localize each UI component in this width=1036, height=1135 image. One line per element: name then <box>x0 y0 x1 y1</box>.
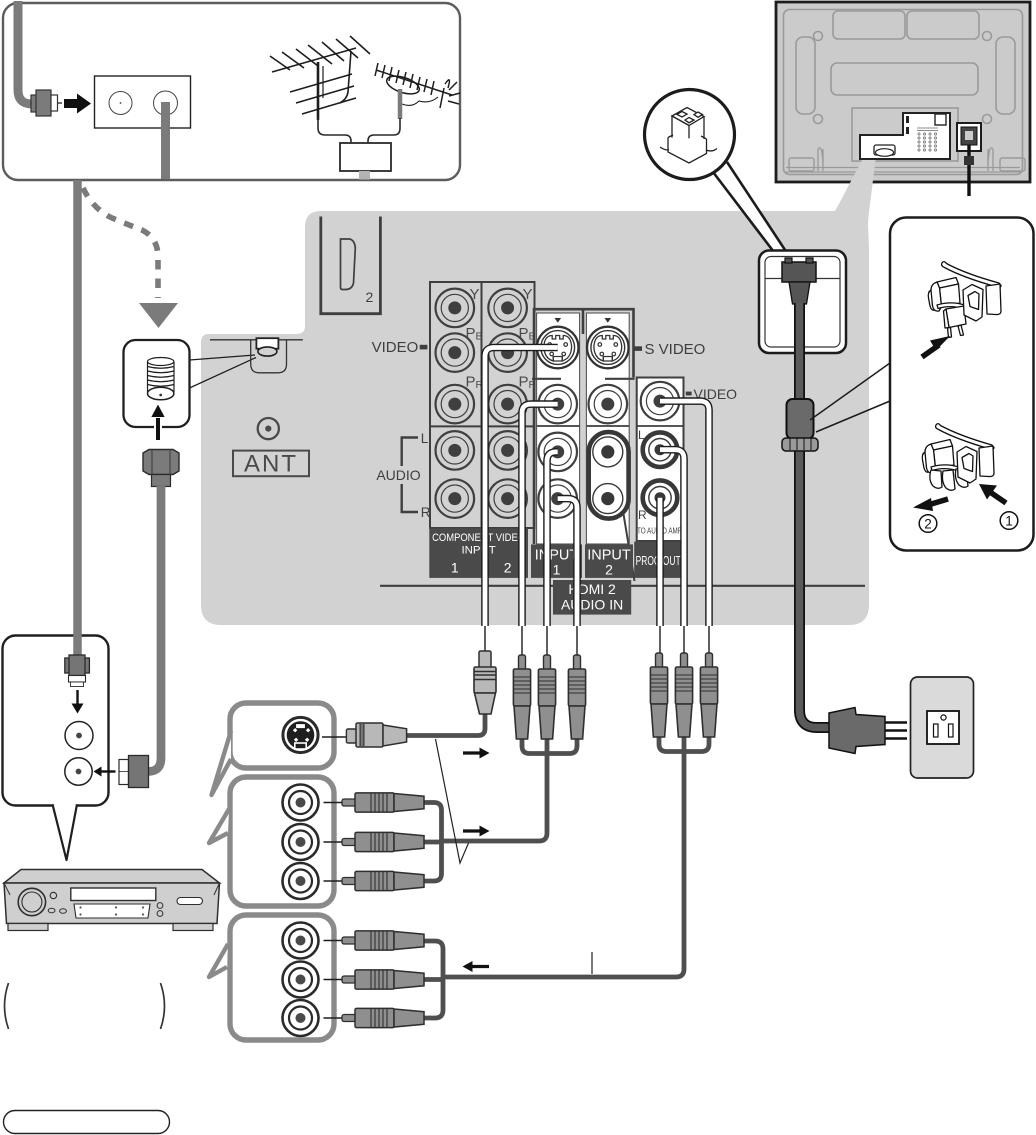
wire long cable left (wall to splitter) <box>73 180 82 653</box>
svg-text:R: R <box>638 508 647 522</box>
wire TV antenna cable down to recorder <box>146 486 161 772</box>
divider audio input cols <box>537 425 630 427</box>
connector elbow F-connector into splitter <box>119 756 149 788</box>
connector F-plug on cable end <box>31 90 62 116</box>
pointer tick on prog cable <box>591 952 593 974</box>
wire cables bubble2 <box>424 803 442 842</box>
jack PR2 <box>488 385 527 424</box>
svg-text:1: 1 <box>451 560 459 576</box>
jack PR1 <box>436 385 475 424</box>
HDMI port box <box>321 217 381 314</box>
svg-text:1: 1 <box>1005 514 1013 529</box>
wire AC plug prongs <box>885 723 907 739</box>
label box COMPONENT VIDEO INPUT <box>429 528 528 578</box>
connector svideo hanging plug <box>474 651 496 714</box>
parentheses (removed caption) <box>5 983 9 1029</box>
jack svideo input2 <box>587 327 629 369</box>
label ANT mark <box>258 418 279 439</box>
divider audio/video components <box>430 425 535 427</box>
jack L in2 <box>593 437 623 467</box>
clamp drawing 2 <box>922 424 994 491</box>
input1 white column <box>537 313 580 544</box>
antenna UHF <box>375 63 460 119</box>
jack video in1 <box>538 385 577 424</box>
TOPLEFTBOX <box>3 3 460 180</box>
jack RCA female L <box>283 962 319 998</box>
connector power plug inserted <box>782 262 816 282</box>
arrow (cable to wall plate) <box>64 94 91 114</box>
connector RCA plug video1 <box>513 655 530 739</box>
jack RCA female V <box>283 785 319 821</box>
wire cables middle plug group <box>522 736 547 754</box>
beam from TV recess to panel <box>835 160 876 224</box>
jack Y2 <box>488 289 527 328</box>
label S VIDEO <box>634 346 642 351</box>
node magnifier circle (power plug detail) <box>645 90 792 261</box>
label circled 1 <box>1000 512 1018 530</box>
svg-text:2: 2 <box>924 517 932 532</box>
node ANT callout bubble <box>124 340 257 427</box>
wire cables right plug group <box>659 734 684 752</box>
wire progVideo cable (white) <box>660 401 709 626</box>
wire stub below combiner <box>359 171 370 180</box>
wire progR cable (white) <box>656 498 664 626</box>
marker triangle input1 <box>555 318 562 323</box>
jack RCA female R <box>283 863 319 899</box>
arrow right (video direction) <box>463 829 480 832</box>
jack svideo input1 <box>537 327 579 369</box>
jack Y1 <box>436 289 475 328</box>
component column 1 box <box>430 282 482 528</box>
clamp attached on cord <box>782 438 818 451</box>
stadium around in2 audio jacks <box>589 432 629 519</box>
node bubble3 (prog out destination) <box>209 915 424 1040</box>
jack R in2 <box>593 484 623 514</box>
label box INPUT 1 <box>531 544 582 578</box>
divider under svideo2 <box>605 378 635 380</box>
ANT terminal on panel <box>210 338 303 373</box>
node bubble2 (video+audio source) <box>209 777 424 906</box>
panel base line <box>380 585 865 587</box>
connector F-plug into splitter <box>65 655 90 687</box>
label VIDEO right <box>686 392 692 396</box>
arrow step 1 (up-left) <box>990 492 1006 503</box>
node power inlet detail square <box>759 251 846 354</box>
svg-text:L: L <box>638 428 645 442</box>
jack R in1 <box>538 479 577 518</box>
node clamp detail box <box>810 218 1034 551</box>
connector RCA plugs horizontal <box>342 793 424 812</box>
svg-text:2: 2 <box>366 289 374 305</box>
label circled 2 <box>919 515 937 533</box>
svg-text:INPUT: INPUT <box>462 545 496 557</box>
jack RCA female R <box>283 1000 319 1036</box>
wire cable from wall plate down <box>161 102 170 179</box>
node splitter jack 2 <box>65 758 92 785</box>
arrow to clamp 1 <box>922 345 939 357</box>
jack video in2 <box>589 385 628 424</box>
jack L prog heavy <box>643 432 678 467</box>
connector 3-pin plug icon <box>660 108 717 164</box>
divider under svideo1 <box>532 378 561 380</box>
label AUDIO bracket <box>402 438 418 513</box>
node splitter tail <box>53 804 78 860</box>
svg-text:Y: Y <box>470 286 480 303</box>
jack PB1 <box>436 333 475 372</box>
jack PB2 <box>488 333 527 372</box>
TV rear view <box>776 2 1030 196</box>
wire video1 cable (white) <box>522 404 558 626</box>
pointer thin V line <box>436 739 469 863</box>
svg-text:R: R <box>421 505 431 520</box>
svg-text:Y: Y <box>523 286 533 303</box>
jack svideo female icon <box>283 717 318 752</box>
label box INPUT 2 <box>585 544 633 578</box>
connector RCA plug L1 <box>538 655 555 739</box>
wire TV power cord <box>967 145 970 196</box>
jack RCA female V <box>283 923 319 959</box>
svg-text:ANT: ANT <box>244 451 298 478</box>
svg-text:S VIDEO: S VIDEO <box>645 341 706 358</box>
arrow step 2 (left) <box>928 499 948 505</box>
svg-text:AUDIO: AUDIO <box>376 467 420 483</box>
connector RCA plug R1 <box>568 655 585 739</box>
connector AC plug <box>829 708 885 754</box>
marker triangle input2 <box>605 318 612 323</box>
arrowhead gray down <box>139 303 178 328</box>
node splitter callout box <box>3 636 109 806</box>
recorder (VCR/DVD) <box>4 870 220 931</box>
ferrite bead on power cord <box>787 399 814 439</box>
jack video prog <box>641 382 680 421</box>
svg-text:COMPONENT VIDEO: COMPONENT VIDEO <box>432 532 525 544</box>
jack R2c <box>488 479 527 518</box>
wire cables bubble3 <box>424 941 443 977</box>
wire progL cable (white) <box>660 450 684 626</box>
input2 white column <box>586 313 629 544</box>
component column 2 box <box>482 282 535 528</box>
connector RCA plug progL <box>675 653 692 737</box>
connector threaded coax plug icon <box>148 358 175 400</box>
TV terminal recess (white cutout) <box>860 113 950 159</box>
clamp drawing 1 <box>928 262 1001 338</box>
wire power cord down <box>800 303 830 728</box>
progout white box <box>637 378 684 542</box>
svg-text:2: 2 <box>605 562 613 578</box>
combiner box <box>340 143 391 171</box>
connector line to HDMI2 label <box>624 514 635 581</box>
wire svideo1 cable (white) <box>485 348 709 656</box>
jack L2c <box>488 431 527 470</box>
node bubble1 (S VIDEO source) <box>212 703 407 795</box>
connector RCA plugs horizontal <box>342 931 424 950</box>
antenna VHF <box>270 36 370 120</box>
connector RCA plug progV <box>700 653 717 737</box>
jack R prog heavy <box>643 480 678 515</box>
pill (empty button outline) <box>4 1111 170 1134</box>
arrow small left into splitter <box>101 770 116 772</box>
jack RCA female L <box>283 824 319 860</box>
input group outer border <box>534 309 634 544</box>
arrow up into ANT bubble <box>154 414 162 440</box>
wire antenna lead left <box>318 118 351 144</box>
svg-text:2: 2 <box>504 560 512 576</box>
wall plate <box>95 76 191 128</box>
arrow down inside splitter <box>76 690 78 704</box>
arrow left (prog out direction) <box>472 965 489 968</box>
connector hex nut on TV antenna cable <box>143 450 179 487</box>
connector RCA plug progR <box>650 653 667 737</box>
wire R1 cable (white) <box>558 499 577 626</box>
label box PROG OUT <box>634 542 682 578</box>
wire coax cable from wall (top-left) <box>18 1 34 104</box>
wire cable end into splitter <box>73 634 82 655</box>
label Y PB PR col1 <box>466 286 537 391</box>
svg-text:1: 1 <box>553 562 561 578</box>
label box HDMI 2 AUDIO IN <box>553 580 631 615</box>
node splitter jack 1 <box>65 722 93 750</box>
arrow right (svideo direction) <box>463 751 480 754</box>
GRAYPANEL <box>201 182 870 625</box>
wire antenna lead right <box>368 118 400 144</box>
svg-text:L: L <box>421 431 429 446</box>
svg-text:AUDIO IN: AUDIO IN <box>561 597 623 613</box>
wire L1 cable (white) <box>547 452 558 626</box>
jack L in1 <box>538 433 577 472</box>
jack L1c <box>436 431 475 470</box>
jack R1c <box>436 479 475 518</box>
svg-text:VIDEO: VIDEO <box>372 339 419 356</box>
wire dashed alternative route <box>83 188 158 298</box>
wire dark cable svideo plug to bubble1 <box>407 712 485 736</box>
connector svideo male plug horizontal <box>346 729 357 743</box>
node wall outlet <box>911 677 974 778</box>
TV power inlet with plug <box>957 123 981 151</box>
